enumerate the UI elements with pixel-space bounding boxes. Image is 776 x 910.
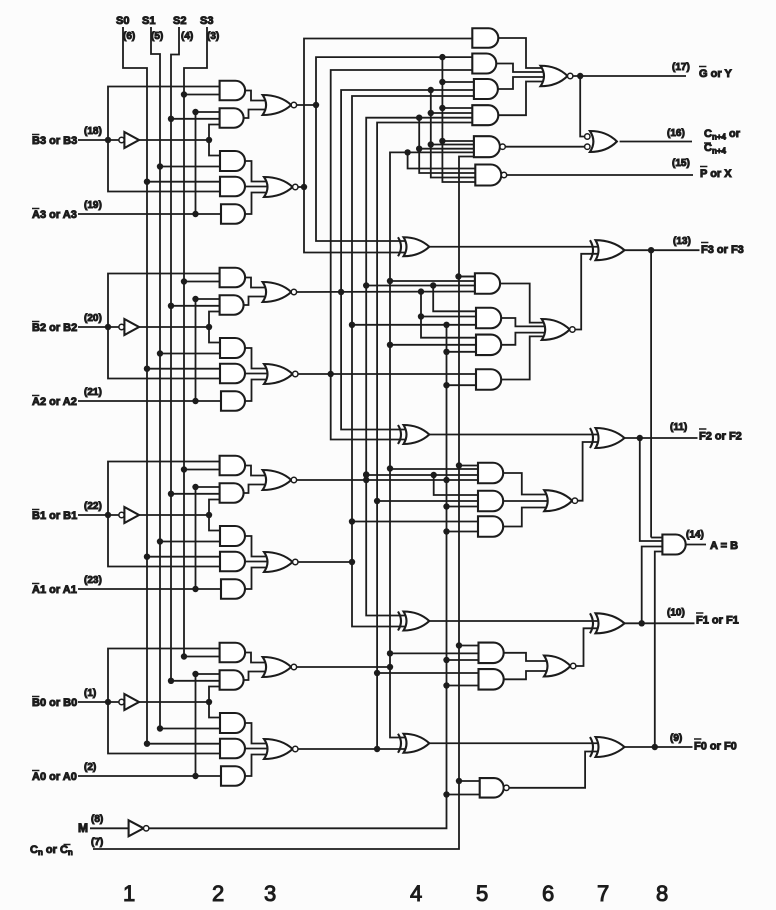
wire n2 out to NOR F2 <box>503 500 552 502</box>
wire Bbar2 up to AND-b <box>209 312 220 328</box>
wire B3 branch down to AND-d <box>108 140 220 192</box>
wire bus V352 (alpha1) <box>352 96 474 627</box>
AND gate b block 2 <box>220 295 244 315</box>
wire AND-e to NOR2 block 1 <box>245 568 272 590</box>
wire Mbar tap p2 <box>447 685 479 687</box>
AND gate t2 <box>472 54 496 74</box>
wire Bbar3 up to AND-b <box>209 125 220 141</box>
svg-text:S3: S3 <box>200 15 213 27</box>
AND gate c block 2 <box>220 338 245 358</box>
wire bus V390 (beta0) <box>390 152 474 737</box>
wire m3 out to NOR F3 <box>501 333 550 345</box>
wire output 15 P or X <box>507 174 693 176</box>
wire output 16 Cn+4 <box>620 141 692 143</box>
wire chain V433.7 to n2 <box>434 475 478 495</box>
wire B2 inverter output <box>139 326 209 328</box>
svg-text:(19): (19) <box>84 200 102 211</box>
svg-text:(6): (6) <box>123 31 135 42</box>
wire q1 out to XOR2 F0 <box>509 752 598 788</box>
wire bus V366.2 (beta1) <box>366 118 472 616</box>
inverter B2 <box>119 324 124 329</box>
wire n3 out to NOR F2 <box>503 508 552 527</box>
svg-text:(5): (5) <box>151 31 163 42</box>
svg-text:F0 or F0: F0 or F0 <box>694 741 737 753</box>
inverter M <box>129 820 144 836</box>
AND gate n2 <box>478 491 503 512</box>
wire Mbar tap m3 <box>447 351 477 353</box>
svg-text:3: 3 <box>264 881 276 906</box>
wire stub V442 tap t5 <box>442 140 474 142</box>
wire B1 branch up to AND-a <box>108 462 220 516</box>
svg-text:P or X: P or X <box>700 168 732 180</box>
inverter B3 <box>119 137 124 142</box>
wire p1 out to NOR F1 <box>504 653 552 661</box>
wire AND-e to NOR2 block 3 <box>245 193 272 215</box>
svg-text:8: 8 <box>656 881 668 906</box>
wire S2 tap to AND-b block 3 <box>171 118 220 120</box>
wire bus V316 (beta3) <box>316 57 472 241</box>
wire NOR1 block1 output to AND n1 <box>297 479 478 481</box>
wire NOR F2 to XOR2 F2 <box>578 442 598 501</box>
wire bus V304 (alpha3) <box>304 39 472 253</box>
wire NOR2 block0 output joins V377 to XOR F0 <box>298 748 377 750</box>
wire S0 tap to AND-d block 3 <box>147 181 220 183</box>
svg-text:7: 7 <box>597 881 609 906</box>
XOR gate 2 F1 <box>596 613 625 633</box>
wire Cn tap m1 <box>459 276 475 278</box>
AND gate m2 <box>476 308 501 329</box>
wire p1 input beta0 <box>390 652 479 654</box>
svg-text:(13): (13) <box>673 236 691 247</box>
NOR gate 2 block 2 <box>264 364 293 384</box>
wire A3 input <box>78 213 221 215</box>
wire B0 inverter output <box>139 701 209 703</box>
AND gate c block 1 <box>220 526 245 546</box>
NOR gate 1 block 1 <box>263 470 292 490</box>
wire B3 input <box>78 139 119 141</box>
wire S3 tap to AND-a block 0 <box>184 656 220 658</box>
AND gate p2 <box>479 669 504 690</box>
wire Cn tap q1 <box>459 780 480 782</box>
AND gate p1 <box>479 643 504 664</box>
AND gate n1 <box>478 463 503 484</box>
svg-text:F2 or F2: F2 or F2 <box>699 431 742 443</box>
wire bus V330.7 (alpha2) <box>331 70 473 440</box>
AND gate a (B0*S3) <box>220 643 246 663</box>
svg-text:G or Y: G or Y <box>699 68 732 80</box>
NOR gate t (G output) <box>541 66 568 87</box>
svg-text:(7): (7) <box>91 837 103 848</box>
wire output F2 <box>625 437 698 439</box>
wire B0 input <box>78 701 119 703</box>
svg-text:A = B: A = B <box>710 540 738 552</box>
wire B0 branch down to AND-d <box>108 702 220 754</box>
wire S2 tap to AND-b block 2 <box>171 305 220 307</box>
NOR gate 1 block 2 <box>263 282 292 302</box>
wire m3 input beta0 tap <box>390 344 476 346</box>
wire bus V341.1 (beta2) <box>341 90 474 430</box>
wire Bbar2 down to AND-c <box>209 327 220 343</box>
svg-text:B2 or B2: B2 or B2 <box>32 322 77 334</box>
svg-text:A3 or A3: A3 or A3 <box>32 209 77 221</box>
wire n1 input beta0 <box>390 468 478 470</box>
wire AND-c to NOR2 block 0 <box>245 723 272 744</box>
wire Mbar tap n2 <box>447 506 479 508</box>
wire AND-b to NOR1 block 1 <box>244 485 271 494</box>
wire p2 out to NOR F1 <box>504 671 552 679</box>
wire S0 tap to AND-d block 2 <box>147 368 220 370</box>
wire A1 input <box>78 588 221 590</box>
wire m1 out to NOR F3 <box>500 284 550 323</box>
AND gate e block 1 (A1) <box>221 579 245 599</box>
NAND gate t7 (P output) <box>475 165 501 186</box>
svg-text:A1 or A1: A1 or A1 <box>32 584 77 596</box>
wire AND-e to NOR2 block 0 <box>245 755 272 777</box>
wire NOR2 block2 output to AND m4 <box>298 373 476 375</box>
svg-text:M: M <box>78 821 88 835</box>
wire Bbar0 down to AND-c <box>209 702 220 718</box>
wire B1 inverter output <box>139 514 209 516</box>
wire S0 bus <box>123 27 147 744</box>
svg-text:(11): (11) <box>670 422 687 433</box>
AND gate n3 <box>478 516 503 537</box>
wire S1 bus <box>151 27 160 729</box>
svg-text:(9): (9) <box>670 733 682 744</box>
svg-text:(17): (17) <box>672 62 690 73</box>
wire Mbar tap n3 <box>447 531 479 533</box>
XOR gate 2 F3 <box>596 240 625 260</box>
NOR gate 2 block 3 <box>264 177 293 197</box>
wire AND-a to NOR1 block 1 <box>245 466 271 476</box>
AND gate d block 2 <box>220 364 245 384</box>
wire Cn rail <box>93 157 474 850</box>
XOR gate 2 F0 <box>596 737 625 757</box>
wire S2 tap to AND-b block 1 <box>171 493 220 495</box>
wire B1 input <box>78 514 119 516</box>
AND gate m1 <box>475 273 500 294</box>
svg-text:2: 2 <box>212 881 224 906</box>
AND gate e block 3 (A3) <box>221 204 245 224</box>
wire output F1 <box>625 622 695 624</box>
wire B0 branch up to AND-a <box>108 649 220 703</box>
svg-text:(3): (3) <box>207 31 219 42</box>
wire stub V419 tap t5 <box>419 148 474 150</box>
wire n1 input beta1 <box>366 474 478 476</box>
wire XOR1 F0 to XOR2 F0 <box>429 742 598 744</box>
svg-text:S2: S2 <box>173 15 186 27</box>
wire Bbar1 up to AND-b <box>209 500 220 516</box>
svg-text:5: 5 <box>476 881 488 906</box>
wire F1 to A=B gate <box>642 547 663 624</box>
svg-text:S0: S0 <box>116 15 129 27</box>
wire XOR1 F1 to XOR2 F1 <box>429 620 598 622</box>
wire m4 out to NOR F3 <box>501 336 550 379</box>
wire AND-d to NOR2 block 1 <box>245 561 272 563</box>
wire Mbar rail <box>149 325 447 829</box>
wire stub V419 to NAND t7 <box>419 118 475 173</box>
wire M input <box>90 827 129 829</box>
wire F2 to A=B gate <box>640 438 663 541</box>
wire S1 tap to AND-c block 1 <box>160 541 220 543</box>
svg-text:4: 4 <box>410 881 422 906</box>
wire 17 branch down to OR t6 <box>580 76 585 137</box>
svg-text:B1 or B1: B1 or B1 <box>32 510 77 522</box>
wire Cn tap n1 <box>459 465 478 467</box>
svg-text:Cn or Cn: Cn or Cn <box>30 844 73 857</box>
wire t2 out to NOR t <box>496 64 549 73</box>
OR gate t6 (Cn+4) with input bubbles <box>585 134 590 139</box>
wire AND-d to NOR2 block 0 <box>245 748 272 750</box>
wire NOR1 block0 output to bus <box>297 666 390 668</box>
wire output A=B <box>686 544 706 546</box>
svg-text:A2 or A2: A2 or A2 <box>32 396 77 408</box>
wire t1 out to NOR t <box>498 38 549 68</box>
wire t4 out to NOR t <box>498 82 549 116</box>
wire NOR F1 to XOR2 F1 <box>576 628 598 666</box>
wire output F3 <box>625 249 700 251</box>
wire XOR1 F3 to XOR2 F3 <box>429 246 598 248</box>
svg-text:(20): (20) <box>84 313 102 324</box>
wire AND-a to NOR1 block 2 <box>245 278 271 288</box>
svg-text:A0 or A0: A0 or A0 <box>32 771 77 783</box>
wire m1 input Cn <box>455 273 461 279</box>
AND gate d block 3 <box>220 177 245 197</box>
AND gate m4 <box>476 369 501 390</box>
svg-text:(21): (21) <box>84 387 102 398</box>
svg-text:(16): (16) <box>667 128 685 139</box>
wire AND-a to NOR1 block 3 <box>245 91 271 101</box>
wire vertical A3 branch to AND-b <box>196 112 220 214</box>
wire Bbar0 up to AND-b <box>209 687 220 703</box>
wire B3 inverter output <box>139 139 209 141</box>
wire m2 out to NOR F3 <box>501 318 550 326</box>
wire Mbar tap q1 <box>447 794 480 796</box>
wire B2 branch up to AND-a <box>108 274 220 328</box>
svg-text:(1): (1) <box>84 688 96 699</box>
NOR gate 2 block 1 <box>264 552 293 572</box>
AND gate t4 <box>472 105 498 125</box>
wire vertical A1 branch to AND-b <box>196 487 220 589</box>
NOR gate F2 carry <box>544 490 572 511</box>
svg-text:F3 or F3: F3 or F3 <box>701 244 744 256</box>
AND gate t3 <box>474 79 498 99</box>
wire AND-d to NOR2 block 3 <box>245 186 272 188</box>
wire AND-b to NOR1 block 0 <box>244 672 271 681</box>
wire S3 tap to AND-a block 3 <box>184 94 220 96</box>
AND gate e block 2 (A2) <box>221 391 245 411</box>
XOR gate 1 F0 <box>404 734 430 753</box>
wire A2 input <box>78 400 221 402</box>
wire A0 input <box>78 775 221 777</box>
svg-text:1: 1 <box>123 881 135 906</box>
AND gate m3 <box>476 335 501 356</box>
wire XOR1 F2 to XOR2 F2 <box>429 434 598 436</box>
svg-text:(22): (22) <box>84 501 102 512</box>
wire AND-a to NOR1 block 0 <box>245 653 271 663</box>
wire m1 input beta1 <box>366 285 475 287</box>
wire Bbar3 down to AND-c <box>209 140 220 156</box>
wire S1 tap to AND-c block 0 <box>160 728 220 730</box>
XOR gate 1 F3 <box>404 237 430 256</box>
wire chain V433 to m2 <box>433 286 476 312</box>
wire n2 input alpha0 <box>377 500 478 502</box>
svg-text:(18): (18) <box>84 126 102 137</box>
AND gate d block 1 <box>220 552 245 572</box>
wire stub V407 to NAND t7 <box>408 152 476 168</box>
inverter B0 <box>119 699 124 704</box>
AND gate c block 0 <box>220 713 245 733</box>
wire S3 tap to AND-a block 2 <box>184 281 220 283</box>
svg-text:6: 6 <box>542 881 554 906</box>
wire AND-c to NOR2 block 2 <box>245 348 272 369</box>
wire chain V421 m2 tap <box>421 316 476 318</box>
svg-text:(2): (2) <box>84 762 96 773</box>
wire stub V430 tap t4 <box>431 112 474 114</box>
wire t3 out to NOR t <box>498 77 549 89</box>
AND gate t1 <box>472 28 498 48</box>
wire AND-d to NOR2 block 2 <box>245 373 272 375</box>
AND gate d block 0 <box>220 739 245 759</box>
AND gate e block 0 (A0) <box>221 766 245 786</box>
AND gate a (B1*S3) <box>220 456 246 476</box>
wire S2 tap to AND-b block 0 <box>171 680 220 682</box>
svg-text:(8): (8) <box>91 814 103 825</box>
NOR gate F3 carry <box>542 319 570 340</box>
wire t5 out to OR t6 <box>505 146 584 148</box>
AND gate a (B2*S3) <box>220 268 246 288</box>
XOR gate 1 F1 <box>404 612 430 631</box>
svg-text:(4): (4) <box>181 31 193 42</box>
NAND gate t5 <box>474 136 500 157</box>
svg-text:(14): (14) <box>686 530 704 541</box>
svg-text:B0 or B0: B0 or B0 <box>32 697 77 709</box>
wire AND-c to NOR2 block 3 <box>245 161 272 182</box>
wire NOR2 block3 output to bus <box>298 186 304 188</box>
wire S2 bus <box>171 27 179 681</box>
XOR gate 1 F2 <box>404 425 430 444</box>
svg-text:(10): (10) <box>667 608 685 619</box>
NOR gate 1 block 0 <box>263 657 292 677</box>
wire S1 tap to AND-c block 3 <box>160 166 220 168</box>
inverter B1 <box>119 512 124 517</box>
wire S3 tap to AND-a block 1 <box>184 469 220 471</box>
wire vertical A0 branch to AND-b <box>196 674 220 776</box>
wire chain V421 to m3 <box>421 292 476 338</box>
wire F0 to A=B gate <box>655 552 663 748</box>
wire NOR1 block2 output to AND m1 <box>297 291 475 294</box>
AND gate c block 3 <box>220 151 245 171</box>
wire Cn tap p1 <box>459 645 479 647</box>
wire n3 input alpha1 <box>352 521 478 523</box>
wire B3 branch up to AND-a <box>108 87 220 141</box>
NAND gate q1 (Mbar*Cn) <box>480 778 504 798</box>
wire B2 branch down to AND-d <box>108 327 220 379</box>
wire m1 input beta0 <box>390 280 475 282</box>
AND gate b block 1 <box>220 483 244 503</box>
wire p2 input alpha0 <box>377 672 478 674</box>
wire NOR F3 to XOR2 F3 <box>575 254 598 330</box>
AND gate a (B3*S3) <box>220 81 246 101</box>
wire AND-b to NOR1 block 3 <box>244 110 271 119</box>
wire stub V442 to NAND t7 <box>442 57 475 182</box>
svg-text:S1: S1 <box>142 15 155 27</box>
wire Mbar tap p1 <box>447 659 479 661</box>
wire AND-c to NOR2 block 1 <box>245 536 272 557</box>
NOR gate F1 carry <box>544 656 571 677</box>
wire S0 tap to AND-d block 1 <box>147 556 220 558</box>
svg-text:(15): (15) <box>672 158 690 169</box>
wire vertical A2 branch to AND-b <box>196 299 220 401</box>
wire Mbar tap m4 <box>447 384 477 386</box>
svg-text:B3 or B3: B3 or B3 <box>32 135 77 147</box>
wire S0 tap to AND-d block 0 <box>147 743 220 745</box>
wire S3 bus <box>184 27 207 657</box>
wire bus V377.1 (alpha0) <box>377 123 472 750</box>
NOR gate 1 block 3 <box>263 95 292 115</box>
wire B2 input <box>78 326 119 328</box>
svg-text:F1 or F1: F1 or F1 <box>696 615 739 627</box>
wire F3 to A=B gate <box>650 250 652 538</box>
wire stub V430 tap t5 <box>431 144 474 146</box>
wire S1 tap to AND-c block 2 <box>160 353 220 355</box>
wire NOR1 block3 output to bus <box>297 104 316 106</box>
AND gate A=B <box>662 535 685 555</box>
AND gate b block 3 <box>220 108 244 128</box>
NOR gate 2 block 0 <box>264 739 293 759</box>
svg-text:(23): (23) <box>84 575 102 586</box>
wire n1 out to NOR F2 <box>503 473 552 495</box>
wire output 17 G or Y <box>573 75 686 77</box>
wire stub V442 tap t4 <box>442 107 474 109</box>
wire NOR2 block1 output to bus <box>298 561 352 563</box>
wire output F0 <box>625 746 693 748</box>
wire stub V442 tap t3 <box>442 81 474 83</box>
AND gate b block 0 <box>220 670 244 690</box>
wire AND-e to NOR2 block 2 <box>245 380 272 402</box>
wire Bbar1 down to AND-c <box>209 515 220 531</box>
wire stub V430 to NAND t7 <box>431 90 476 178</box>
wire AND-b to NOR1 block 2 <box>244 297 271 306</box>
wire B1 branch down to AND-d <box>108 515 220 567</box>
wire m2 input alpha1 <box>352 324 476 326</box>
XOR gate 2 F2 <box>596 428 625 448</box>
